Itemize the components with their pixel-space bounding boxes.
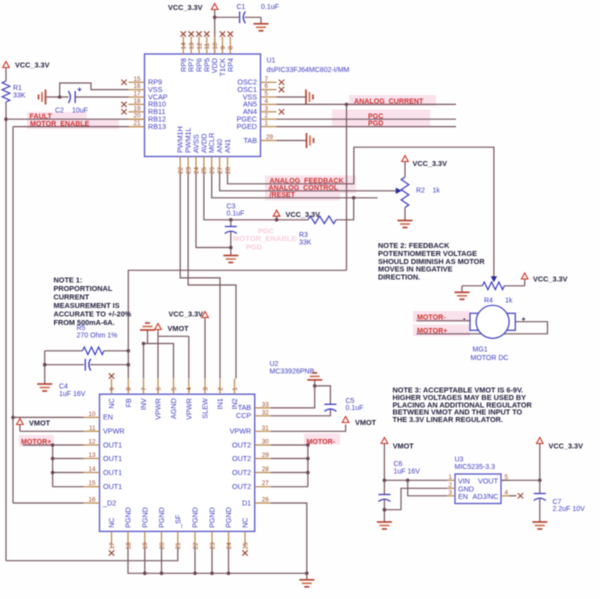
- power flag VMOT at U3: [381, 438, 414, 481]
- svg-text:NC: NC: [107, 518, 116, 528]
- svg-text:25: 25: [201, 166, 208, 174]
- junction /RESET-R3: [352, 196, 356, 200]
- junction VIN-EN: [406, 479, 410, 483]
- svg-text:C4: C4: [59, 384, 68, 391]
- svg-text:17: 17: [133, 91, 141, 98]
- power flag VMOT at U2 VPWR11: [17, 419, 84, 432]
- svg-text:OUT1: OUT1: [103, 482, 122, 491]
- svg-text:8: 8: [126, 387, 133, 391]
- U1 pin18 RB10 no-connect X: [121, 102, 126, 107]
- U1 left pin stubs and names 15-21: [129, 76, 168, 131]
- net label /RESET: [270, 191, 296, 199]
- net label halos: [19, 95, 470, 447]
- svg-text:OUT2: OUT2: [232, 454, 251, 463]
- wire ground to C2: [52, 96, 69, 98]
- wire R4 right to VCC: [504, 279, 524, 286]
- svg-text:5: 5: [265, 91, 269, 98]
- svg-text:10: 10: [88, 411, 96, 418]
- potentiometer R4 1k: [482, 276, 512, 304]
- svg-text:MOTOR-: MOTOR-: [417, 314, 446, 322]
- svg-text:MOTOR DC: MOTOR DC: [471, 355, 509, 362]
- ground at R5-C4: [37, 378, 52, 392]
- svg-text:26: 26: [209, 166, 216, 174]
- svg-text:PGND: PGND: [224, 507, 233, 528]
- junction OUT2 pin29: [306, 457, 310, 461]
- U1 top pin stubs 8-14: [181, 37, 235, 55]
- wire R1 down FAULT net: [5, 102, 7, 561]
- svg-text:1: 1: [232, 387, 239, 391]
- junction at VCC rail: [213, 15, 217, 19]
- power flag VCC_3.3V above U1: [168, 3, 218, 17]
- svg-text:20: 20: [159, 542, 166, 550]
- U2 pin25 NC X mark: [242, 550, 247, 555]
- svg-text:THE 3.3V LINEAR REGULATOR.: THE 3.3V LINEAR REGULATOR.: [393, 415, 503, 424]
- junction C2 node: [58, 95, 62, 99]
- net MOTOR+ wire at pin12: [23, 444, 84, 446]
- svg-text:VPWR: VPWR: [154, 398, 163, 420]
- junction D1 ground: [305, 572, 309, 576]
- net EN wire: [13, 416, 84, 418]
- junction C3 tap: [229, 218, 233, 222]
- svg-text:18: 18: [125, 542, 132, 550]
- svg-text:FB: FB: [124, 398, 133, 407]
- svg-text:15: 15: [133, 76, 141, 83]
- svg-text:INV: INV: [139, 398, 148, 410]
- svg-text:PGND: PGND: [208, 507, 217, 528]
- svg-text:7: 7: [265, 76, 269, 83]
- svg-text:U3: U3: [455, 456, 464, 463]
- svg-text:PGD: PGD: [368, 120, 383, 128]
- svg-text:25: 25: [242, 542, 249, 550]
- svg-text:VCC_3.3V: VCC_3.3V: [15, 61, 50, 70]
- ground at U1 VSS pin5: [277, 90, 314, 105]
- power flag VMOT at U2 VPWR31: [271, 417, 377, 432]
- wire C1 to ground: [245, 16, 261, 18]
- net PGD wire: [277, 126, 457, 128]
- svg-text:17: 17: [109, 542, 116, 550]
- svg-text:4: 4: [186, 387, 193, 391]
- svg-text:R4: R4: [484, 298, 493, 305]
- svg-text:PGND: PGND: [191, 507, 200, 528]
- wire rail to C1: [215, 16, 239, 18]
- net ANALOG_CONTROL wire: [220, 173, 396, 191]
- junction OUT2 pin30: [306, 443, 310, 447]
- svg-text:270 Ohm 1%: 270 Ohm 1%: [77, 332, 118, 339]
- svg-text:9: 9: [220, 46, 227, 50]
- svg-text:5: 5: [171, 387, 178, 391]
- capacitor C5 0.1uF: [324, 398, 363, 412]
- wire VCC to R1: [5, 68, 7, 82]
- U2 left pin stubs and names 10-16: [84, 411, 125, 507]
- svg-text:1uF 16V: 1uF 16V: [394, 468, 421, 475]
- svg-text:VMOT: VMOT: [168, 324, 190, 333]
- svg-text:24: 24: [193, 166, 200, 174]
- net _SF wire to FAULT: [6, 548, 178, 561]
- U2 bottom pin stubs and names 17-25: [107, 507, 250, 549]
- capacitor C7 2.2uF 10V: [534, 480, 585, 515]
- PGND ground rail: [128, 548, 307, 576]
- svg-text:13: 13: [88, 452, 96, 459]
- svg-text:14: 14: [88, 466, 96, 473]
- svg-text:15: 15: [88, 480, 96, 487]
- svg-text:VMOT: VMOT: [393, 441, 415, 450]
- net ADJ wire: [509, 495, 517, 497]
- svg-text:IN1: IN1: [216, 398, 225, 409]
- U1 pin15 RP9 no-connect X: [121, 80, 126, 85]
- junction TAB ground node: [313, 384, 317, 388]
- wire MOTOR_ENABLE down left side: [12, 127, 14, 503]
- net PWM1H wire to IN1: [180, 173, 220, 379]
- net label ANALOG_CURRENT: [354, 97, 424, 105]
- net label MOTOR- at motor: [417, 314, 446, 322]
- ground at R4: [455, 286, 470, 300]
- net ANALOG_FEEDBACK wire: [228, 147, 494, 276]
- capacitor C4 1uF 16V: [45, 359, 129, 398]
- svg-text:ADJ/NC: ADJ/NC: [473, 492, 499, 501]
- svg-text:U2: U2: [270, 361, 279, 368]
- svg-text:4: 4: [505, 489, 509, 496]
- net D1 wire to ground: [271, 503, 307, 573]
- net INV wire: [143, 344, 145, 379]
- svg-text:EN: EN: [458, 492, 468, 501]
- net MOTOR- wire at pin30: [271, 444, 308, 446]
- svg-text:7: 7: [141, 387, 148, 391]
- svg-text:19: 19: [142, 542, 149, 550]
- svg-text:AGND: AGND: [169, 398, 178, 419]
- power flag VCC_3.3V at R1: [3, 61, 50, 70]
- svg-text:MG1: MG1: [473, 347, 488, 354]
- svg-text:11: 11: [89, 425, 96, 432]
- ground at C3: [223, 249, 238, 263]
- svg-text:/RESET: /RESET: [270, 191, 296, 199]
- U2 reference label: [270, 361, 315, 376]
- power flag VCC_3.3V at R3: [273, 210, 320, 220]
- svg-text:VPWR: VPWR: [184, 398, 193, 420]
- net label ANALOG_CONTROL: [269, 184, 339, 192]
- svg-text:D1: D1: [242, 498, 251, 507]
- svg-text:24: 24: [226, 542, 233, 550]
- U1 OSC2 no-connect X: [279, 80, 284, 85]
- svg-text:2: 2: [265, 113, 269, 120]
- svg-text:3: 3: [265, 105, 269, 112]
- net PGC wire: [277, 118, 457, 120]
- wire OUT2 pin27: [271, 486, 308, 488]
- ground at R2: [398, 214, 413, 228]
- motor polarity marks: [463, 314, 526, 324]
- net MOTOR_ENABLE wire to pin21: [13, 126, 145, 128]
- svg-text:6: 6: [265, 83, 269, 90]
- ground at C1: [254, 17, 269, 31]
- svg-text:OUT1: OUT1: [103, 468, 122, 477]
- svg-text:10uF: 10uF: [72, 108, 88, 115]
- U3 pin names: [458, 476, 499, 501]
- svg-text:VCC_3.3V: VCC_3.3V: [549, 441, 584, 450]
- svg-text:MOTOR+: MOTOR+: [417, 327, 447, 335]
- OUT1 bus wire: [52, 445, 54, 487]
- capacitor C2 10uF: [55, 88, 88, 115]
- net AVDD wire to VCC node: [204, 173, 308, 220]
- svg-text:PGD: PGD: [246, 243, 263, 252]
- svg-text:1k: 1k: [433, 187, 441, 194]
- svg-text:21: 21: [175, 542, 182, 550]
- motor MG1 terminals: [470, 313, 515, 330]
- wire OUT1 pin14: [53, 472, 84, 474]
- svg-text:14: 14: [181, 42, 188, 50]
- net AGND wire: [144, 344, 174, 379]
- svg-text:4: 4: [265, 98, 269, 105]
- svg-text:0.1uF: 0.1uF: [346, 405, 364, 412]
- U2 pin17 NC X mark: [109, 550, 114, 555]
- U2 right pin stubs and names 26-33: [230, 401, 271, 507]
- svg-text:MOTOR_ENABLE: MOTOR_ENABLE: [30, 120, 90, 128]
- svg-text:OUT2: OUT2: [232, 482, 251, 491]
- OUT2 bus wire: [307, 445, 309, 487]
- svg-text:SLEW: SLEW: [201, 398, 210, 419]
- U1 TAB pin 29 stub: [244, 134, 277, 145]
- svg-text:-: -: [463, 314, 466, 323]
- net AVSS wire to ground: [196, 173, 231, 248]
- power flag VMOT at U2 VPWR6: [155, 324, 189, 379]
- net label MOTOR+ at motor: [417, 327, 447, 335]
- junction VIN-C6: [383, 479, 387, 483]
- net label MOTOR_ENABLE: [30, 120, 90, 128]
- U1 pin19 RB11 no-connect X: [121, 109, 126, 114]
- svg-text:NC: NC: [241, 518, 250, 528]
- resistor R5 270 Ohm: [45, 325, 129, 355]
- U2 pin9 NC X mark: [109, 373, 114, 378]
- svg-text:12: 12: [196, 42, 203, 50]
- wire VDD pin10 to rail: [214, 17, 216, 54]
- svg-text:31: 31: [262, 425, 270, 432]
- U1 bottom pin stubs and names 22-28: [176, 126, 232, 174]
- svg-text:1k: 1k: [505, 298, 513, 305]
- wire OUT1 pin13: [53, 458, 84, 460]
- motor MG1 body: [476, 305, 509, 338]
- svg-text:33K: 33K: [13, 92, 26, 99]
- wire C2 to VCAP pin17: [76, 96, 129, 98]
- junction EN-MOTOR_ENABLE: [11, 416, 15, 420]
- U3 pin numbers: [448, 474, 508, 497]
- junction OUT2 pin28: [306, 471, 310, 475]
- svg-text:3: 3: [448, 489, 452, 496]
- svg-text:ANALOG_CURRENT: ANALOG_CURRENT: [354, 97, 424, 105]
- junction VOUT-C7: [538, 479, 542, 483]
- svg-text:C7: C7: [553, 499, 562, 506]
- wire R4 left to ground: [462, 285, 482, 287]
- svg-text:C2: C2: [55, 108, 64, 115]
- resistor R1 33K: [2, 81, 26, 102]
- ground flipped at AGND: [140, 323, 155, 344]
- NOTE 2 text block: [378, 241, 485, 282]
- svg-text:0.1uF: 0.1uF: [261, 4, 279, 11]
- resistor R3 33K: [299, 216, 336, 246]
- ghost text artifacts: [233, 227, 297, 252]
- svg-text:2: 2: [448, 482, 452, 489]
- U1 top pin names: [179, 58, 235, 77]
- svg-text:AN1: AN1: [223, 139, 232, 153]
- wire OUT2 pin29: [271, 458, 308, 460]
- svg-text:9: 9: [109, 387, 116, 391]
- wire OUT1 pin15: [53, 486, 84, 488]
- net PWM1L wire to IN2: [188, 173, 236, 379]
- regulator U3 body (MIC5235-3.3): [455, 474, 501, 504]
- net label ANALOG_FEEDBACK: [270, 177, 345, 185]
- power flag VCC_3.3V at SLEW: [169, 310, 209, 379]
- svg-text:16: 16: [133, 83, 141, 90]
- svg-text:18: 18: [133, 98, 141, 105]
- U1 top no-connect X marks: [181, 31, 233, 36]
- wire AN5 down to FB net: [346, 104, 348, 270]
- power flag VCC_3.3V at R2: [402, 156, 447, 178]
- NOTE 3 text block: [393, 386, 533, 425]
- svg-text:VCC_3.3V: VCC_3.3V: [533, 275, 568, 284]
- U1 OSC1 no-connect X: [279, 87, 284, 92]
- capacitor C3 0.1uF: [225, 204, 245, 249]
- svg-text:8: 8: [228, 46, 235, 50]
- junction AVSS-C3: [229, 246, 233, 250]
- junction C6-GND: [383, 508, 387, 512]
- wire TAB to ground: [277, 140, 301, 142]
- ground flipped above TAB: [307, 373, 322, 387]
- junction OUT1 bus pin12: [51, 443, 55, 447]
- svg-text:EN: EN: [103, 413, 113, 422]
- svg-text:PGED: PGED: [237, 122, 257, 131]
- svg-text:33K: 33K: [299, 239, 312, 246]
- U3 ADJ/NC no-connect X: [518, 493, 523, 498]
- svg-text:29: 29: [262, 452, 270, 459]
- power flag VCC_3.3V at U3: [537, 438, 584, 481]
- net GND wire to C6 node: [384, 488, 447, 509]
- svg-text:RB13: RB13: [148, 122, 166, 131]
- svg-text:26: 26: [262, 497, 270, 504]
- ground at C2: [39, 90, 53, 105]
- svg-text:29: 29: [266, 134, 274, 141]
- svg-text:6: 6: [155, 387, 162, 391]
- junction R1-FAULT: [4, 117, 8, 121]
- capacitor C6 1uF 16V: [378, 461, 420, 516]
- svg-text:VCC_3.3V: VCC_3.3V: [169, 310, 204, 319]
- svg-text:VCC_3.3V: VCC_3.3V: [286, 210, 321, 219]
- svg-text:10: 10: [212, 42, 219, 50]
- svg-text:22: 22: [178, 166, 185, 174]
- motor MG1 labels: [471, 347, 509, 363]
- svg-text:23: 23: [209, 542, 216, 550]
- ground at U1 TAB: [300, 133, 314, 148]
- svg-text:0.1uF: 0.1uF: [227, 210, 245, 217]
- net VIN wire: [384, 479, 447, 481]
- svg-text:MIC5235-3.3: MIC5235-3.3: [455, 464, 496, 471]
- svg-text:_D2: _D2: [102, 498, 116, 507]
- net label FAULT: [30, 113, 53, 121]
- svg-text:2.2uF 10V: 2.2uF 10V: [553, 506, 586, 513]
- svg-text:MOTOR_ENABLE: MOTOR_ENABLE: [233, 234, 297, 243]
- svg-text:23: 23: [185, 166, 192, 174]
- svg-text:VPWR: VPWR: [103, 427, 125, 436]
- svg-text:MOTOR+: MOTOR+: [21, 438, 51, 446]
- U2 top pin stubs and names 1-9: [107, 379, 239, 420]
- net ANALOG_CURRENT wire: [277, 103, 457, 105]
- wire EN tie to VIN: [408, 480, 447, 496]
- svg-text:PGND: PGND: [140, 507, 149, 528]
- net FAULT wire to pin20: [6, 118, 145, 120]
- ground at C6: [377, 516, 392, 530]
- ground at C7: [532, 516, 547, 530]
- potentiometer R2 1k: [396, 177, 441, 208]
- U1 right pin stubs and names 1-7: [237, 76, 277, 131]
- svg-text:27: 27: [217, 166, 224, 174]
- svg-text:19: 19: [133, 105, 141, 112]
- junction INV-AGND: [142, 342, 146, 346]
- junction OUT1 pin13: [51, 457, 55, 461]
- junction AN5 node: [345, 103, 349, 107]
- svg-text:VMOT: VMOT: [355, 418, 377, 427]
- wire R2 to ground: [404, 208, 406, 215]
- net label PGD: [368, 120, 383, 128]
- wire R3 to /RESET: [336, 198, 354, 220]
- svg-text:CCP: CCP: [236, 411, 251, 420]
- svg-text:28: 28: [225, 166, 232, 174]
- capacitor C1 0.1uF: [237, 4, 279, 23]
- svg-text:C1: C1: [237, 4, 246, 11]
- net label MOTOR- at U2: [307, 438, 336, 446]
- IC U2 body (MC33926 H-bridge driver): [100, 394, 255, 531]
- svg-text:R2: R2: [416, 187, 425, 194]
- svg-text:DIRECTION.: DIRECTION.: [378, 273, 420, 282]
- svg-text:NC: NC: [107, 398, 116, 408]
- svg-text:R1: R1: [13, 85, 22, 92]
- svg-text:_SF: _SF: [173, 514, 182, 529]
- net VOUT wire: [501, 479, 540, 481]
- svg-text:2: 2: [217, 387, 224, 391]
- svg-text:27: 27: [262, 480, 270, 487]
- net CCP wire via C5: [271, 386, 331, 416]
- svg-text:FROM 500mA-6A.: FROM 500mA-6A.: [54, 318, 115, 327]
- svg-text:dsPIC33FJ64MC802-I/MM: dsPIC33FJ64MC802-I/MM: [267, 67, 350, 74]
- svg-text:MOTOR-: MOTOR-: [307, 438, 336, 446]
- svg-text:1: 1: [448, 474, 452, 481]
- svg-text:22: 22: [192, 542, 199, 550]
- junction OUT1 pin14: [51, 471, 55, 475]
- svg-text:1uF 16V: 1uF 16V: [59, 391, 86, 398]
- svg-text:VMOT: VMOT: [29, 419, 51, 428]
- junction VCC-MCLR line: [275, 218, 279, 222]
- svg-text:11: 11: [204, 42, 211, 49]
- U1 AN4 no-connect X: [279, 109, 284, 114]
- net label MOTOR+ at U2: [21, 438, 51, 446]
- svg-text:VOUT: VOUT: [478, 476, 499, 485]
- power flag VCC_3.3V at R4: [521, 273, 567, 284]
- NOTE 1 text block: [54, 276, 132, 328]
- svg-text:28: 28: [262, 466, 270, 473]
- svg-text:OUT1: OUT1: [103, 440, 122, 449]
- wire VSS jog: [60, 83, 129, 97]
- junction FB-C4: [127, 363, 131, 367]
- net TAB wire: [271, 386, 315, 408]
- svg-text:13: 13: [189, 42, 196, 50]
- wire R5-C4 left node: [44, 351, 46, 378]
- svg-text:32: 32: [262, 409, 270, 416]
- net _D2 wire: [13, 502, 84, 504]
- ground at PGND rail: [299, 573, 314, 587]
- U1 reference label: [267, 58, 350, 75]
- svg-text:3: 3: [202, 387, 209, 391]
- svg-text:MC33926PNB: MC33926PNB: [270, 369, 315, 376]
- net label PGC: [368, 112, 383, 120]
- U3 pin stubs: [447, 480, 509, 496]
- net MOTOR- wire to motor: [417, 320, 471, 322]
- svg-text:VCC_3.3V: VCC_3.3V: [413, 159, 448, 168]
- svg-text:U1: U1: [267, 58, 276, 65]
